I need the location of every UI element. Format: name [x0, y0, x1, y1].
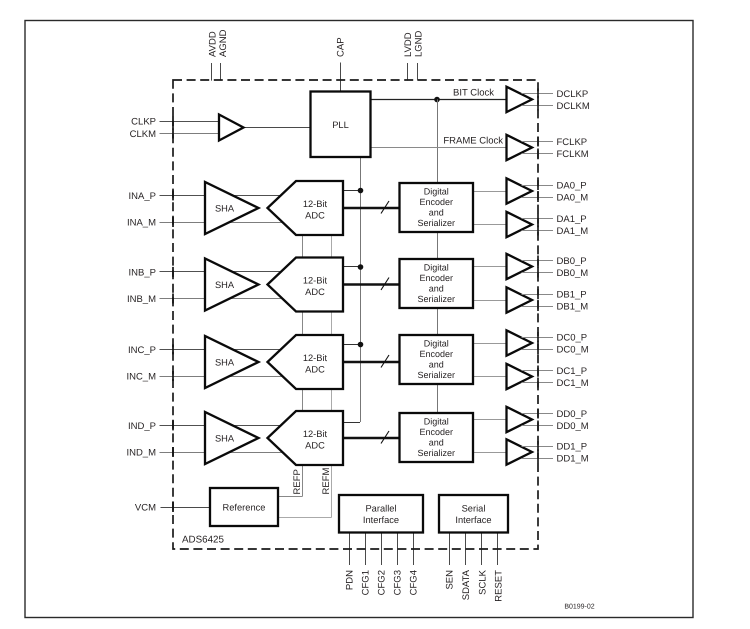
node BIT Clock junction	[434, 97, 440, 103]
svg-text:B0199-02: B0199-02	[564, 604, 594, 611]
wire ADC B clock tap	[343, 266, 360, 268]
boundary tick left input	[172, 502, 174, 512]
output buffer FCLK	[507, 135, 533, 160]
svg-text:and: and	[429, 437, 444, 447]
wire CLKM input	[160, 133, 229, 135]
svg-text:INB_P: INB_P	[129, 267, 156, 278]
svg-text:SDATA: SDATA	[461, 569, 472, 600]
svg-text:Encoder: Encoder	[419, 349, 453, 359]
wire REFP vertical	[302, 235, 304, 496]
output buffer DC1	[507, 364, 533, 389]
svg-text:SHA: SHA	[215, 280, 235, 290]
svg-text:Encoder: Encoder	[419, 427, 453, 437]
clock input buffer	[219, 115, 244, 141]
svg-text:BIT Clock: BIT Clock	[453, 87, 494, 98]
output buffer DCLK	[507, 87, 533, 112]
boundary tick DC1_P	[537, 366, 539, 376]
boundary tick DC0_P	[537, 332, 539, 342]
pin stub LVDD	[407, 63, 409, 81]
svg-text:CLKP: CLKP	[131, 116, 156, 127]
wire serializer B to buffer B0	[473, 266, 507, 268]
boundary tick left input	[172, 267, 174, 277]
wire pin PDN	[349, 533, 351, 566]
wire serializer B to buffer B1	[473, 300, 507, 302]
svg-text:Digital: Digital	[424, 187, 449, 197]
svg-text:and: and	[429, 283, 444, 293]
PLL block	[311, 92, 371, 158]
wire DA1_P	[522, 218, 554, 220]
svg-text:DA1_P: DA1_P	[557, 214, 587, 225]
boundary tick DB1_P	[537, 289, 539, 299]
boundary tick DA0_M	[537, 192, 539, 202]
dashed device boundary ADS6425	[173, 80, 538, 549]
svg-text:INA_M: INA_M	[127, 217, 156, 228]
wire DA0_P	[522, 185, 554, 187]
pin stub AVDD	[211, 63, 213, 81]
Digital Encoder and Serializer D	[400, 413, 474, 462]
boundary tick DB0_M	[537, 268, 539, 278]
wire pin SDATA	[465, 533, 467, 566]
svg-text:Serializer: Serializer	[417, 370, 455, 380]
svg-text:SCLK: SCLK	[477, 569, 488, 594]
svg-text:ADC: ADC	[305, 364, 325, 374]
svg-text:and: and	[429, 359, 444, 369]
wire DC0_M	[522, 349, 554, 351]
svg-text:DA1_M: DA1_M	[557, 226, 589, 237]
wire DD0_M	[522, 425, 554, 427]
boundary tick left input	[172, 217, 174, 227]
svg-text:REFP: REFP	[292, 469, 303, 494]
svg-text:INA_P: INA_P	[129, 191, 156, 202]
svg-text:RESET: RESET	[493, 570, 504, 602]
svg-text:12-Bit: 12-Bit	[303, 353, 328, 363]
svg-text:AVDD: AVDD	[207, 31, 218, 57]
SHA C	[205, 336, 259, 388]
boundary tick FCLKP	[537, 137, 539, 147]
wire DC0_P	[522, 337, 554, 339]
pin stub AGND	[220, 63, 222, 81]
svg-text:DCLKM: DCLKM	[557, 101, 590, 112]
svg-text:SEN: SEN	[445, 570, 456, 590]
svg-text:DC0_M: DC0_M	[557, 344, 589, 355]
12-Bit ADC A	[268, 181, 344, 235]
svg-text:Digital: Digital	[424, 339, 449, 349]
boundary tick DD1_P	[537, 441, 539, 451]
wire ADC A clock tap	[343, 190, 360, 192]
svg-text:ADC: ADC	[305, 210, 325, 220]
svg-text:CFG3: CFG3	[392, 570, 403, 595]
svg-text:DB1_M: DB1_M	[557, 301, 589, 312]
svg-text:DC1_M: DC1_M	[557, 378, 589, 389]
12-Bit ADC C	[268, 335, 344, 389]
wire ADC D clock tap	[343, 422, 360, 424]
svg-text:CFG1: CFG1	[360, 570, 371, 595]
svg-text:Digital: Digital	[424, 263, 449, 273]
svg-text:INC_M: INC_M	[126, 371, 156, 382]
boundary tick left input	[172, 420, 174, 430]
svg-text:AGND: AGND	[218, 29, 229, 57]
svg-text:Serializer: Serializer	[417, 218, 455, 228]
svg-text:Interface: Interface	[455, 515, 491, 525]
wire serializer A to buffer A1	[473, 224, 507, 226]
svg-text:DA0_P: DA0_P	[557, 180, 587, 191]
svg-text:DD1_P: DD1_P	[557, 441, 588, 452]
wire pin CFG4	[413, 533, 415, 566]
svg-text:DC0_P: DC0_P	[557, 332, 588, 343]
wire serializer C to buffer C0	[473, 343, 507, 345]
svg-text:DB1_P: DB1_P	[557, 289, 587, 300]
wire DA0_M	[522, 197, 554, 199]
wire DB1_M	[522, 306, 554, 308]
svg-text:ADC: ADC	[305, 287, 325, 297]
boundary tick left input	[172, 344, 174, 354]
boundary tick left input	[172, 294, 174, 304]
boundary tick DA0_P	[537, 180, 539, 190]
boundary tick FCLKM	[537, 149, 539, 159]
node clock tap B junction	[358, 264, 364, 270]
boundary tick left input	[172, 447, 174, 457]
wire pin CFG1	[365, 533, 367, 566]
wire DB0_P	[522, 260, 554, 262]
svg-text:DB0_P: DB0_P	[557, 256, 587, 267]
boundary tick DA1_P	[537, 214, 539, 224]
boundary tick DCLKM	[537, 100, 539, 110]
wire ADC clock vertical from PLL bottom	[360, 157, 362, 422]
boundary tick DC0_M	[537, 344, 539, 354]
svg-text:CLKM: CLKM	[130, 129, 156, 140]
svg-text:IND_P: IND_P	[128, 421, 156, 432]
wire FCLKP	[522, 141, 554, 143]
svg-text:PLL: PLL	[332, 120, 349, 130]
boundary tick left input	[172, 371, 174, 381]
svg-text:DD0_P: DD0_P	[557, 409, 588, 420]
svg-text:FCLKM: FCLKM	[557, 149, 589, 160]
wire INC_P input	[160, 349, 284, 351]
svg-text:REFM: REFM	[321, 468, 332, 495]
pin stub LGND	[417, 63, 419, 81]
SHA A	[205, 182, 259, 234]
svg-text:CFG2: CFG2	[376, 570, 387, 595]
svg-text:IND_M: IND_M	[126, 447, 156, 458]
Serial Interface block	[439, 495, 508, 533]
svg-text:FCLKP: FCLKP	[557, 137, 588, 148]
svg-text:Serial: Serial	[462, 504, 486, 514]
wire IND_M input	[160, 452, 284, 454]
Parallel Interface block	[339, 495, 423, 533]
wire clock buffer to PLL	[243, 127, 311, 129]
wire BIT Clock: PLL to output buffer	[370, 99, 507, 101]
wire VCM input	[161, 507, 211, 509]
svg-text:Interface: Interface	[363, 515, 399, 525]
boundary tick DCLKP	[537, 88, 539, 98]
output buffer DB0	[507, 254, 533, 279]
svg-text:ADS6425: ADS6425	[182, 534, 224, 545]
wire serializer C to buffer C1	[473, 376, 507, 378]
Digital Encoder and Serializer B	[400, 259, 474, 308]
Digital Encoder and Serializer A	[400, 183, 474, 232]
wire DB0_M	[522, 272, 554, 274]
wire pin RESET	[497, 533, 499, 566]
boundary tick DA1_M	[537, 226, 539, 236]
wire DCLKM	[522, 105, 554, 107]
svg-text:VCM: VCM	[135, 502, 156, 513]
boundary tick DB1_M	[537, 301, 539, 311]
Reference block	[210, 488, 278, 526]
svg-text:INC_P: INC_P	[128, 345, 156, 356]
bus width slash C	[381, 355, 389, 368]
wire ADC C clock tap	[343, 344, 360, 346]
wire FRAME Clock: PLL to output buffer	[370, 147, 507, 149]
wire ADC B data bus	[343, 283, 400, 285]
wire CAP pin into PLL	[340, 63, 342, 93]
Digital Encoder and Serializer C	[400, 335, 474, 384]
svg-text:SHA: SHA	[215, 433, 235, 443]
svg-text:DC1_P: DC1_P	[557, 366, 588, 377]
output buffer DB1	[507, 287, 533, 312]
wire REFM vertical	[331, 235, 333, 518]
boundary tick left input	[172, 116, 174, 126]
12-Bit ADC D	[268, 411, 344, 465]
wire pin SCLK	[481, 533, 483, 566]
output buffer DA1	[507, 212, 533, 237]
wire DB1_P	[522, 294, 554, 296]
svg-text:DD0_M: DD0_M	[557, 421, 589, 432]
svg-text:Reference: Reference	[223, 502, 266, 512]
svg-text:LGND: LGND	[413, 30, 424, 57]
wire INA_M input	[160, 222, 284, 224]
svg-text:SHA: SHA	[215, 357, 235, 367]
svg-text:FRAME Clock: FRAME Clock	[443, 135, 503, 146]
wire serializer D to buffer D1	[473, 452, 507, 454]
wire DC1_M	[522, 382, 554, 384]
wire INA_P input	[160, 195, 284, 197]
svg-text:CFG4: CFG4	[408, 570, 419, 595]
wire INC_M input	[160, 376, 284, 378]
output buffer DD0	[507, 407, 533, 432]
wire FCLKM	[522, 153, 554, 155]
wire ADC D data bus	[343, 437, 400, 439]
wire serializer A to buffer A0	[473, 191, 507, 193]
svg-text:CAP: CAP	[335, 37, 346, 57]
boundary tick DD0_P	[537, 409, 539, 419]
wire pin CFG3	[397, 533, 399, 566]
wire REFP to Reference	[278, 496, 303, 498]
wire DCLKP	[522, 93, 554, 95]
svg-text:SHA: SHA	[215, 203, 235, 213]
SHA B	[205, 259, 259, 311]
wire ADC C data bus	[343, 361, 400, 363]
svg-text:12-Bit: 12-Bit	[303, 199, 328, 209]
SHA D	[205, 412, 259, 464]
boundary tick DC1_M	[537, 378, 539, 388]
wire ADC A data bus	[343, 207, 400, 209]
wire IND_P input	[160, 425, 284, 427]
boundary tick DB0_P	[537, 256, 539, 266]
wire INB_M input	[160, 298, 284, 300]
bus width slash A	[381, 201, 389, 214]
wire REFM to Reference	[278, 517, 332, 519]
wire DD1_P	[522, 446, 554, 448]
svg-text:DCLKP: DCLKP	[557, 89, 589, 100]
wire DD1_M	[522, 458, 554, 460]
output buffer DA0	[507, 178, 533, 203]
wire serializer D to buffer D0	[473, 419, 507, 421]
svg-text:DA0_M: DA0_M	[557, 192, 589, 203]
svg-text:Serializer: Serializer	[417, 294, 455, 304]
output buffer DC0	[507, 330, 533, 355]
svg-text:Parallel: Parallel	[365, 504, 396, 514]
boundary tick left input	[172, 129, 174, 139]
wire CLKP input	[160, 121, 229, 123]
node clock tap C junction	[358, 342, 364, 348]
boundary tick DD0_M	[537, 421, 539, 431]
wire pin CFG2	[381, 533, 383, 566]
svg-text:DB0_M: DB0_M	[557, 268, 589, 279]
svg-text:DD1_M: DD1_M	[557, 453, 589, 464]
wire INB_P input	[160, 271, 284, 273]
wire pin SEN	[449, 533, 451, 566]
wire BIT clock vertical to serializers	[437, 99, 439, 414]
svg-text:12-Bit: 12-Bit	[303, 429, 328, 439]
wire DC1_P	[522, 370, 554, 372]
svg-text:PDN: PDN	[344, 570, 355, 590]
boundary tick left input	[172, 190, 174, 200]
bus width slash D	[381, 431, 389, 444]
svg-text:and: and	[429, 207, 444, 217]
wire DD0_P	[522, 413, 554, 415]
12-Bit ADC B	[268, 258, 344, 312]
svg-text:Encoder: Encoder	[419, 273, 453, 283]
svg-text:12-Bit: 12-Bit	[303, 276, 328, 286]
boundary tick DD1_M	[537, 453, 539, 463]
svg-text:ADC: ADC	[305, 440, 325, 450]
node clock tap A junction	[358, 188, 364, 194]
svg-text:INB_M: INB_M	[127, 294, 156, 305]
svg-text:Digital: Digital	[424, 417, 449, 427]
output buffer DD1	[507, 439, 533, 464]
svg-text:Serializer: Serializer	[417, 448, 455, 458]
wire DA1_M	[522, 230, 554, 232]
bus width slash B	[381, 278, 389, 291]
svg-text:Encoder: Encoder	[419, 197, 453, 207]
